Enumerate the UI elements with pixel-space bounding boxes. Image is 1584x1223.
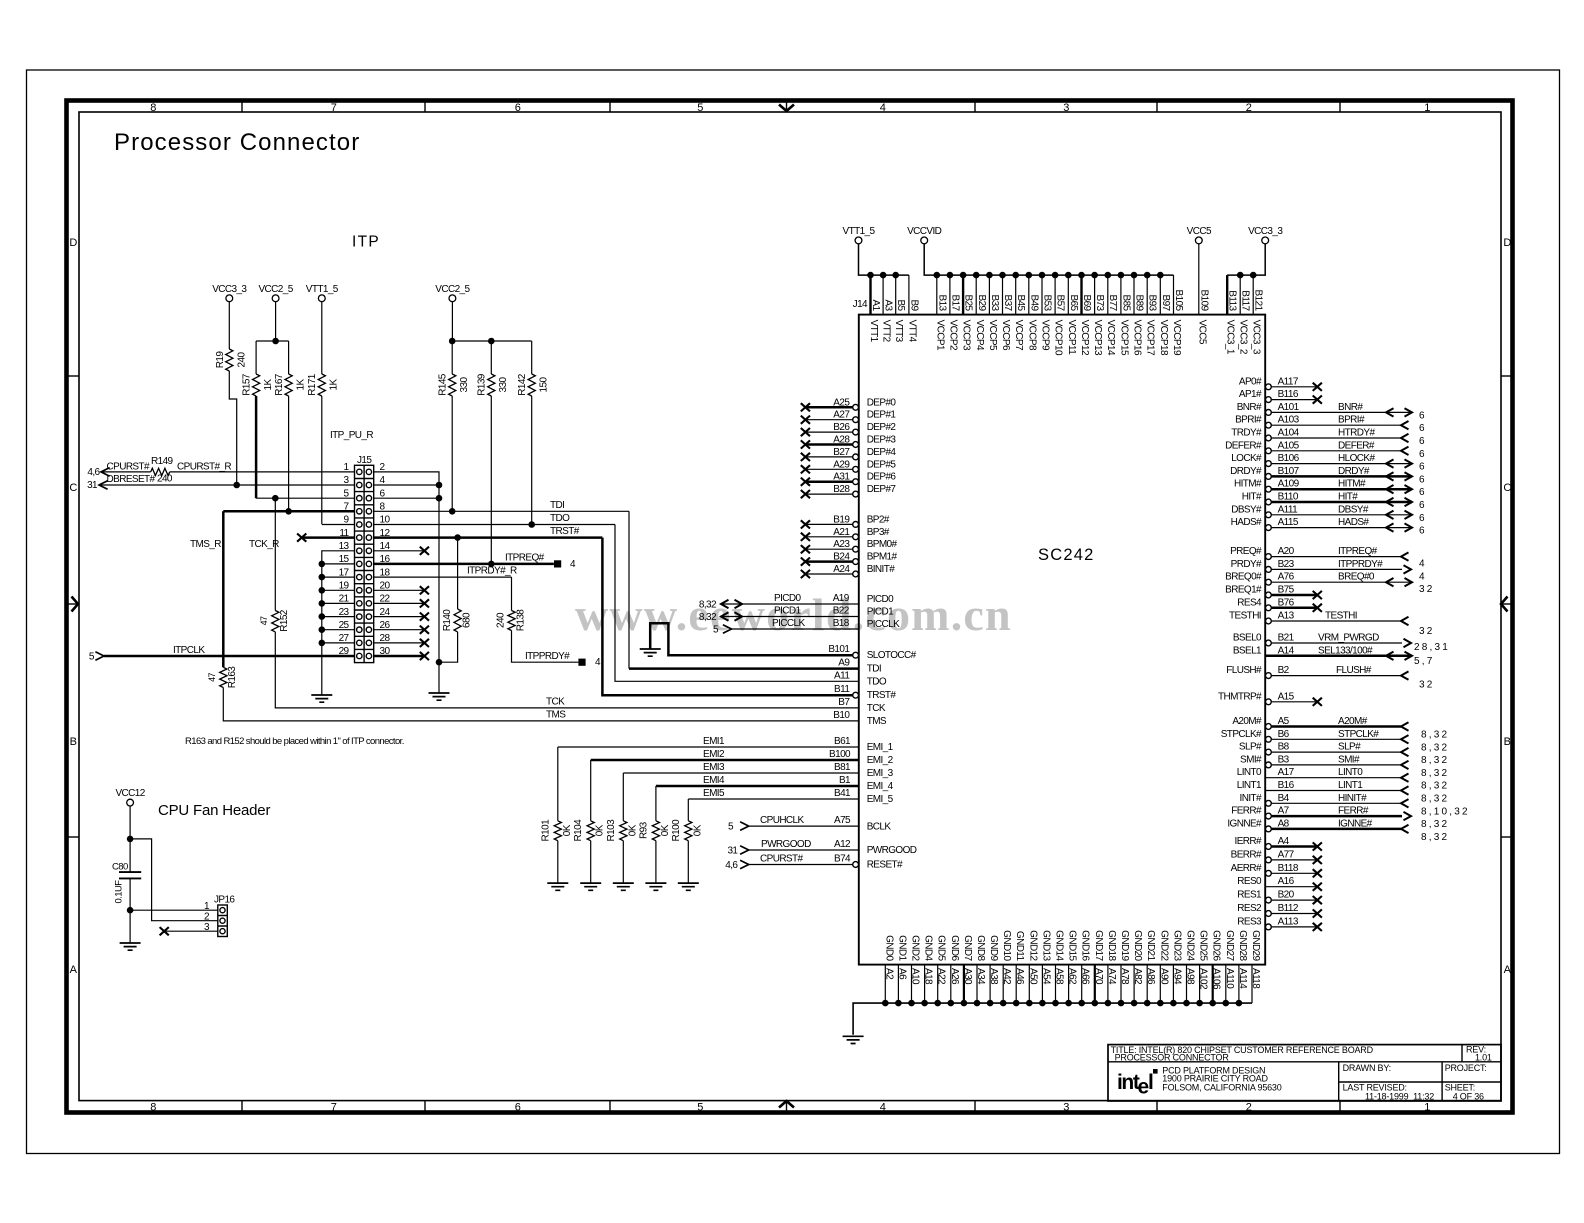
wire EMI4: [656, 775, 859, 821]
svg-text:DEP#7: DEP#7: [867, 484, 897, 495]
svg-text:240: 240: [237, 352, 248, 368]
svg-text:J14: J14: [853, 299, 868, 310]
svg-text:SEL133/100#: SEL133/100#: [1318, 645, 1373, 656]
svg-text:DBSY#: DBSY#: [1338, 504, 1369, 515]
off-page flag 4,6 CPURST#: [87, 461, 150, 478]
wire EMI5: [688, 788, 859, 821]
svg-text:A50: A50: [1027, 968, 1038, 985]
svg-text:VCC3_2: VCC3_2: [1238, 320, 1249, 355]
resistor R140: [442, 609, 473, 632]
svg-text:A6: A6: [896, 968, 907, 980]
svg-text:B16: B16: [1278, 780, 1295, 791]
wire VCC12 to JP16 pin2: [130, 839, 218, 921]
svg-text:PROCESSOR CONNECTOR: PROCESSOR CONNECTOR: [1115, 1053, 1230, 1063]
svg-text:A117: A117: [1278, 376, 1299, 387]
wire EMI2: [591, 749, 859, 821]
svg-text:2: 2: [1246, 1102, 1252, 1114]
svg-text:28,31: 28,31: [1414, 642, 1450, 653]
svg-text:GND5: GND5: [936, 935, 947, 961]
svg-text:GND15: GND15: [1067, 930, 1078, 961]
svg-text:TMS_R: TMS_R: [190, 539, 221, 550]
svg-text:PICD1: PICD1: [867, 606, 894, 617]
svg-text:VTT4: VTT4: [906, 320, 917, 343]
svg-text:B29: B29: [976, 295, 987, 312]
SC242 pin EMI_1 (B61): [834, 736, 894, 753]
svg-text:VCC3_3: VCC3_3: [212, 284, 247, 295]
svg-text:PRDY#: PRDY#: [1231, 559, 1262, 570]
SC242 pin RES4 (B76) no-connect: [1237, 597, 1322, 612]
wire VCC3_3 to R19: [228, 302, 230, 349]
svg-text:TDI: TDI: [550, 500, 564, 511]
resistor R152: [259, 609, 290, 632]
svg-text:SLP#: SLP#: [1338, 742, 1361, 753]
svg-text:BNR#: BNR#: [1338, 402, 1363, 413]
svg-text:B41: B41: [834, 788, 851, 799]
wire VCC2_5 bus left: [256, 302, 289, 374]
SC242 pin IERR# (A4) no-connect: [1235, 836, 1322, 851]
svg-text:SC242: SC242: [1038, 546, 1094, 564]
SC242 pin DEP#3 (A28) no-connect: [801, 435, 897, 449]
off-page flag 5 CPUHCLK: [728, 822, 749, 833]
svg-text:BERR#: BERR#: [1231, 849, 1262, 860]
svg-text:R145: R145: [438, 373, 449, 396]
svg-text:A19: A19: [833, 593, 850, 604]
svg-text:HTRDY#: HTRDY#: [1338, 428, 1375, 439]
SC242 pin AP1# (B116) no-connect: [1239, 389, 1322, 404]
svg-text:VCCP6: VCCP6: [1000, 320, 1011, 351]
svg-text:A25: A25: [833, 397, 850, 408]
svg-text:BREQ1#: BREQ1#: [1225, 585, 1262, 596]
SC242 pin DEP#4 (B27) no-connect: [801, 447, 897, 461]
svg-text:HADS#: HADS#: [1231, 517, 1262, 528]
svg-text:VCCP7: VCCP7: [1013, 320, 1024, 351]
svg-text:B37: B37: [1002, 295, 1013, 312]
connector JP16 fan header: [204, 895, 235, 937]
ground: [678, 883, 699, 890]
svg-text:BINIT#: BINIT#: [867, 564, 896, 575]
svg-text:B53: B53: [1042, 295, 1053, 312]
svg-text:R101: R101: [540, 819, 551, 842]
svg-text:VCC5: VCC5: [1196, 320, 1207, 345]
svg-text:VTT1_5: VTT1_5: [306, 284, 339, 295]
svg-text:HADS#: HADS#: [1338, 517, 1369, 528]
SC242 pin BPM1# (B24) no-connect: [801, 552, 898, 566]
svg-text:A3: A3: [883, 299, 894, 311]
svg-text:ITPREQ#: ITPREQ#: [1338, 546, 1378, 557]
svg-text:EMI_2: EMI_2: [867, 755, 894, 766]
svg-text:VCC5: VCC5: [1187, 226, 1212, 237]
SC242 pin A20M# (A5) net A20M#: [1232, 716, 1449, 741]
power VCCVID: [907, 226, 942, 244]
svg-text:DRDY#: DRDY#: [1230, 466, 1262, 477]
power VCC3_3: [1248, 226, 1283, 244]
svg-text:A26: A26: [949, 968, 960, 985]
svg-text:VCCP4: VCCP4: [974, 320, 985, 351]
SC242 pin BSEL1 (A14) net SEL133/100#: [1233, 645, 1435, 667]
svg-text:HIT#: HIT#: [1338, 492, 1358, 503]
svg-text:BP3#: BP3#: [867, 527, 890, 538]
svg-text:VCCP12: VCCP12: [1079, 320, 1090, 356]
svg-text:e: e: [1138, 1076, 1149, 1099]
SC242 pin LINT0 (A17) net LINT0: [1237, 767, 1450, 792]
ground: [311, 695, 332, 702]
wire J15 pin7 TMS_R: [223, 508, 354, 515]
wire CPURST# to R149: [101, 471, 151, 473]
resistor R19: [215, 349, 248, 371]
svg-text:3: 3: [1063, 102, 1069, 114]
svg-text:R104: R104: [573, 819, 584, 842]
frame centre arrow right: [1501, 597, 1512, 612]
svg-text:B106: B106: [1278, 453, 1300, 464]
svg-text:8,32: 8,32: [1421, 794, 1449, 805]
svg-text:INIT#: INIT#: [1240, 793, 1262, 804]
svg-text:B74: B74: [834, 854, 851, 865]
SC242 pin HADS# (A115) net HADS#: [1231, 517, 1427, 537]
svg-text:A77: A77: [1278, 849, 1295, 860]
svg-text:A22: A22: [936, 968, 947, 985]
svg-text:6: 6: [1419, 423, 1427, 434]
svg-text:A58: A58: [1054, 968, 1065, 985]
svg-text:B: B: [70, 736, 77, 748]
no-connect JP16 pin3: [160, 927, 218, 935]
wire TCK_R vertical: [274, 498, 276, 610]
resistor R138: [496, 609, 527, 632]
svg-text:TRDY#: TRDY#: [1231, 428, 1262, 439]
svg-text:B9: B9: [908, 299, 919, 311]
svg-text:SMI#: SMI#: [1338, 754, 1360, 765]
svg-text:4: 4: [1419, 559, 1427, 570]
off-page flag 5 ITPCLK: [89, 651, 104, 662]
wire VTT rail: [859, 244, 909, 279]
svg-text:A34: A34: [975, 968, 986, 985]
svg-text:1: 1: [1424, 102, 1430, 114]
svg-text:B7: B7: [838, 697, 850, 708]
svg-text:B26: B26: [833, 422, 850, 433]
wire TRST# to SC242: [602, 538, 853, 696]
wire J15 pin8 TDI: [374, 500, 629, 515]
SC242 top pin numbers: [870, 290, 1264, 312]
svg-text:EMI_3: EMI_3: [867, 768, 894, 779]
svg-text:HLOCK#: HLOCK#: [1338, 453, 1375, 464]
svg-text:B116: B116: [1278, 389, 1299, 400]
wire R138 to ITPPRDY#: [512, 631, 579, 663]
svg-text:PICCLK: PICCLK: [867, 619, 900, 630]
wire R142 to TDO net: [531, 396, 533, 525]
svg-text:DEP#0: DEP#0: [867, 397, 897, 408]
svg-text:1K: 1K: [296, 379, 307, 391]
power VCC5: [1187, 226, 1212, 244]
svg-text:32: 32: [1419, 626, 1435, 637]
svg-text:B112: B112: [1278, 903, 1299, 914]
wire to ground: [687, 841, 689, 883]
svg-text:TDI: TDI: [867, 664, 881, 675]
svg-text:8,32: 8,32: [1421, 781, 1449, 792]
svg-text:HIT#: HIT#: [1242, 492, 1262, 503]
svg-text:ITP: ITP: [352, 234, 380, 251]
svg-text:VCCP18: VCCP18: [1158, 320, 1169, 356]
svg-text:A115: A115: [1278, 517, 1299, 528]
svg-text:47: 47: [207, 673, 217, 682]
svg-text:VCCP13: VCCP13: [1092, 320, 1103, 356]
SC242 pin TRDY# (A104) net HTRDY#: [1231, 428, 1427, 448]
wire R152 to TCK: [275, 632, 859, 708]
svg-text:TRST#: TRST#: [550, 526, 580, 537]
svg-text:B117: B117: [1240, 290, 1251, 311]
wire R171 to J15 pin9: [321, 396, 323, 524]
svg-text:B3: B3: [1278, 754, 1290, 765]
svg-text:VCCP15: VCCP15: [1118, 320, 1129, 356]
svg-text:A20M#: A20M#: [1338, 716, 1368, 727]
svg-text:A23: A23: [833, 539, 850, 550]
svg-text:LOCK#: LOCK#: [1231, 453, 1262, 464]
svg-text:DEP#5: DEP#5: [867, 459, 897, 470]
svg-text:R163 and R152 should be place: R163 and R152 should be placed within 1"…: [185, 736, 404, 747]
svg-text:5: 5: [697, 1102, 703, 1114]
ground: [120, 943, 141, 950]
svg-text:8,32: 8,32: [699, 612, 717, 623]
svg-text:int: int: [1117, 1071, 1140, 1094]
svg-text:B97: B97: [1160, 295, 1171, 312]
svg-text:A1: A1: [870, 299, 881, 311]
svg-text:4: 4: [880, 102, 886, 114]
svg-text:A90: A90: [1158, 968, 1169, 985]
svg-text:8,32: 8,32: [1421, 742, 1449, 753]
wire VCC2_5 bus right: [449, 302, 532, 374]
svg-text:31: 31: [727, 845, 738, 856]
wire TDO to SC242: [615, 525, 859, 682]
svg-text:GND7: GND7: [962, 935, 973, 961]
svg-text:0K: 0K: [595, 824, 606, 836]
svg-text:A28: A28: [833, 435, 850, 446]
svg-text:C: C: [69, 482, 77, 494]
wire EMI3: [623, 762, 859, 821]
resistor R93: [638, 821, 671, 841]
SC242 pin DEP#2 (B26) no-connect: [801, 422, 897, 436]
svg-text:31: 31: [87, 480, 98, 491]
wire J15 pin13 to ground rail: [322, 551, 355, 695]
SC242 pin RES2 (B112) no-connect: [1237, 903, 1322, 918]
svg-text:VCCP3: VCCP3: [961, 320, 972, 351]
svg-text:A31: A31: [833, 472, 850, 483]
svg-text:TDO: TDO: [550, 513, 570, 524]
svg-text:240: 240: [157, 473, 173, 484]
svg-text:6: 6: [515, 102, 521, 114]
svg-text:VCC3_3: VCC3_3: [1251, 320, 1262, 355]
svg-text:EMI3: EMI3: [703, 762, 725, 773]
svg-text:GND18: GND18: [1106, 930, 1117, 961]
label TMS_R: [190, 539, 221, 550]
SC242 pin DEFER# (A105) net DEFER#: [1225, 440, 1427, 460]
ground: [640, 649, 661, 656]
svg-text:DEFER#: DEFER#: [1225, 440, 1262, 451]
wire R139 to ITPREQ# net: [490, 396, 492, 564]
svg-text:HITM#: HITM#: [1338, 479, 1366, 490]
svg-text:A102: A102: [1198, 968, 1209, 990]
frame centre arrow bottom: [779, 1101, 794, 1111]
no-connect J15 pin30: [374, 652, 429, 660]
SC242 pin PWRGOOD (A12): [834, 839, 917, 856]
svg-text:A76: A76: [1278, 572, 1295, 583]
svg-text:VCCP1: VCCP1: [934, 320, 945, 351]
SC242 pin BERR# (A77) no-connect: [1231, 849, 1322, 864]
resistor R163: [207, 666, 238, 689]
SC242 pin INIT# (B4) net HINIT#: [1240, 793, 1470, 818]
svg-text:A104: A104: [1278, 428, 1300, 439]
svg-text:SLOTOCC#: SLOTOCC#: [867, 650, 917, 661]
svg-text:A11: A11: [834, 670, 850, 681]
svg-text:A113: A113: [1278, 916, 1299, 927]
ground: [645, 883, 666, 890]
svg-text:BPM0#: BPM0#: [867, 539, 898, 550]
svg-text:TCK: TCK: [546, 697, 565, 708]
svg-text:VCCP8: VCCP8: [1026, 320, 1037, 351]
svg-text:R140: R140: [442, 609, 453, 632]
svg-text:6: 6: [1419, 526, 1427, 537]
wire to ground: [655, 841, 657, 883]
frame centre arrow left: [67, 597, 78, 612]
svg-text:B20: B20: [1278, 890, 1295, 901]
title block frame: [1108, 1045, 1501, 1101]
svg-text:0K: 0K: [692, 824, 703, 836]
svg-text:4: 4: [880, 1102, 886, 1114]
svg-text:6: 6: [1419, 513, 1427, 524]
wire R167 to J15 pin7: [288, 396, 290, 511]
svg-text:A21: A21: [833, 527, 850, 538]
junction: [436, 659, 443, 666]
svg-text:STPCLK#: STPCLK#: [1338, 729, 1379, 740]
svg-text:CPURST#: CPURST#: [107, 461, 151, 472]
wire EMI1: [558, 736, 859, 821]
resistor R100: [671, 819, 704, 842]
SC242 pin DEP#6 (A31) no-connect: [801, 472, 897, 486]
svg-text:GND16: GND16: [1080, 930, 1091, 961]
svg-text:GND11: GND11: [1014, 931, 1025, 962]
svg-text:RES3: RES3: [1237, 916, 1262, 927]
svg-text:BP2#: BP2#: [867, 514, 890, 525]
svg-text:PICD0: PICD0: [867, 594, 894, 605]
ground: [613, 883, 634, 890]
svg-text:B77: B77: [1107, 295, 1118, 312]
svg-text:B25: B25: [963, 295, 974, 312]
svg-text:DRDY#: DRDY#: [1338, 466, 1370, 477]
SC242 pin RES3 (A113) no-connect: [1237, 916, 1322, 931]
svg-text:DEP#1: DEP#1: [867, 410, 897, 421]
svg-text:R157: R157: [242, 373, 253, 396]
resistor R103: [606, 819, 639, 842]
svg-text:R103: R103: [606, 819, 617, 842]
svg-text:SMI#: SMI#: [1240, 754, 1262, 765]
SC242 pin TMS (B10): [833, 710, 887, 727]
label ITP: [352, 234, 380, 251]
svg-text:VCCP16: VCCP16: [1132, 320, 1143, 356]
svg-text:A2: A2: [883, 968, 894, 980]
label ITP_PU_R: [330, 430, 373, 441]
wire R19 to DBRESET#: [229, 371, 236, 485]
wire PWRGOOD: [749, 839, 859, 850]
resistor R139: [477, 373, 510, 396]
svg-text:BSEL1: BSEL1: [1233, 645, 1262, 656]
wire R163 to TMS: [223, 688, 859, 721]
SC242 pin PRDY# (B23) net ITPPRDY#: [1231, 559, 1427, 583]
svg-text:1.01: 1.01: [1475, 1053, 1492, 1063]
svg-text:B89: B89: [1134, 295, 1145, 312]
svg-text:FERR#: FERR#: [1338, 806, 1369, 817]
svg-text:VRM_PWRGD: VRM_PWRGD: [1318, 633, 1379, 644]
SC242 pin SMI# (B3) net SMI#: [1240, 754, 1449, 779]
svg-text:A103: A103: [1278, 415, 1300, 426]
svg-text:TMS: TMS: [546, 710, 566, 721]
svg-text:TESTHI: TESTHI: [1325, 611, 1357, 622]
svg-text:GND6: GND6: [949, 935, 960, 961]
svg-text:BREQ#0: BREQ#0: [1338, 572, 1375, 583]
SC242 pin BP2# (B19) no-connect: [801, 514, 890, 528]
svg-text:GND17: GND17: [1093, 930, 1104, 961]
wire to ground: [590, 841, 592, 883]
svg-text:8,32: 8,32: [1421, 832, 1449, 843]
svg-text:240: 240: [496, 612, 507, 628]
svg-text:IGNNE#: IGNNE#: [1338, 818, 1373, 829]
svg-text:GND22: GND22: [1158, 930, 1169, 961]
ground: [547, 883, 568, 890]
wire VCC3 rail: [1227, 244, 1265, 279]
svg-text:A54: A54: [1040, 968, 1051, 985]
SC242 pin BNR# (A101) net BNR#: [1237, 402, 1427, 422]
svg-text:R100: R100: [671, 819, 682, 842]
SC242 pin BREQ0# (A76) net BREQ#0: [1225, 572, 1434, 596]
svg-text:VCC3_3: VCC3_3: [1248, 226, 1283, 237]
svg-text:GND4: GND4: [923, 935, 934, 961]
svg-text:A118: A118: [1250, 968, 1261, 989]
power VCC12: [115, 788, 145, 806]
svg-text:TCK: TCK: [867, 703, 886, 714]
svg-text:R138: R138: [516, 609, 527, 632]
wire CPURST# to RESET#: [749, 854, 853, 865]
frame zone ticks: [67, 101, 1512, 1113]
SC242 pin AP0# (A117) no-connect: [1239, 376, 1322, 391]
SC242 pin BSEL0 (B21) net VRM_PWRGD: [1233, 633, 1450, 654]
svg-text:B109: B109: [1198, 290, 1209, 312]
ground: [429, 693, 450, 700]
svg-text:PROJECT:: PROJECT:: [1445, 1063, 1487, 1073]
svg-text:DEP#2: DEP#2: [867, 422, 897, 433]
svg-text:A17: A17: [1278, 767, 1295, 778]
svg-text:l: l: [1148, 1071, 1153, 1094]
SC242 pin BPRI# (A103) net BPRI#: [1235, 415, 1427, 435]
SC242 pin DRDY# (B107) net DRDY#: [1230, 466, 1427, 486]
svg-text:3: 3: [1063, 1102, 1069, 1114]
ground: [843, 1036, 864, 1043]
svg-text:A12: A12: [834, 839, 851, 850]
svg-text:32: 32: [1419, 584, 1435, 595]
svg-text:GND27: GND27: [1224, 930, 1235, 961]
svg-text:GND24: GND24: [1185, 930, 1196, 961]
svg-text:VCCP11: VCCP11: [1066, 320, 1077, 356]
label J14: [853, 299, 868, 310]
svg-text:RES2: RES2: [1237, 903, 1262, 914]
svg-text:A82: A82: [1132, 968, 1143, 985]
title block text: [1111, 1045, 1492, 1102]
svg-text:B17: B17: [949, 295, 960, 312]
wire J15 pin12 TRST#: [374, 526, 603, 541]
svg-text:GND29: GND29: [1250, 930, 1261, 961]
svg-text:HITM#: HITM#: [1234, 479, 1262, 490]
svg-text:CPU Fan Header: CPU Fan Header: [158, 802, 270, 819]
intel logo: [1117, 1069, 1158, 1099]
svg-text:LINT0: LINT0: [1338, 767, 1363, 778]
svg-text:EMI1: EMI1: [703, 736, 725, 747]
frame zone labels: [69, 102, 1511, 1114]
svg-text:BPRI#: BPRI#: [1338, 415, 1365, 426]
